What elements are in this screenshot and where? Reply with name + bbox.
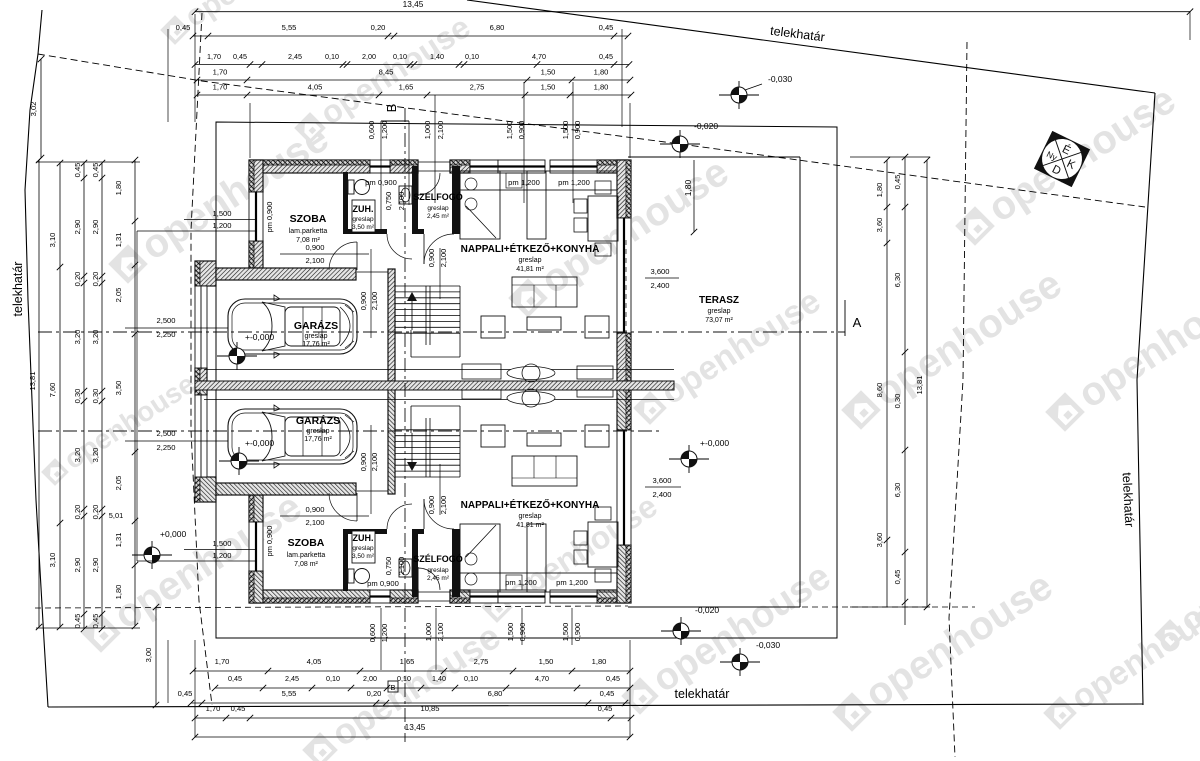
svg-text:+-0,000: +-0,000 (245, 438, 274, 448)
svg-text:2,500: 2,500 (156, 316, 175, 325)
svg-text:1,40: 1,40 (432, 674, 446, 683)
svg-text:1,80: 1,80 (594, 68, 609, 77)
svg-text:pm 0,900: pm 0,900 (265, 526, 274, 557)
svg-text:5,55: 5,55 (282, 689, 297, 698)
svg-text:+0,000: +0,000 (160, 529, 187, 539)
svg-text:0,45: 0,45 (606, 674, 620, 683)
svg-text:7,08 m²: 7,08 m² (294, 561, 318, 568)
svg-text:greslap: greslap (305, 333, 328, 340)
svg-text:13,45: 13,45 (403, 0, 424, 9)
svg-text:0,900: 0,900 (427, 249, 436, 268)
svg-text:17,76 m²: 17,76 m² (304, 436, 332, 443)
svg-text:2,100: 2,100 (305, 256, 324, 265)
svg-text:3,50: 3,50 (114, 381, 123, 396)
svg-text:0,45: 0,45 (893, 175, 902, 190)
svg-text:1,500: 1,500 (561, 623, 570, 642)
svg-text:1,50: 1,50 (541, 83, 556, 92)
svg-text:2,400: 2,400 (652, 490, 671, 499)
svg-text:0,20: 0,20 (91, 505, 100, 520)
svg-text:2,100: 2,100 (436, 623, 445, 642)
svg-text:greslap: greslap (427, 205, 449, 212)
svg-text:NAPPALI+ÉTKEZŐ+KONYHA: NAPPALI+ÉTKEZŐ+KONYHA (461, 498, 600, 511)
svg-text:17,76 m²: 17,76 m² (302, 341, 330, 348)
svg-text:2,00: 2,00 (363, 674, 377, 683)
svg-text:2,45 m²: 2,45 m² (427, 213, 450, 220)
svg-text:3,60: 3,60 (875, 218, 884, 233)
svg-text:0,30: 0,30 (73, 389, 82, 404)
svg-text:6,80: 6,80 (488, 689, 503, 698)
svg-text:10,85: 10,85 (420, 704, 439, 713)
svg-text:1,000: 1,000 (423, 121, 432, 140)
svg-text:2,45: 2,45 (288, 52, 302, 61)
svg-text:1,80: 1,80 (875, 183, 884, 198)
svg-text:41,81 m²: 41,81 m² (516, 522, 544, 529)
svg-text:5,01: 5,01 (109, 511, 123, 520)
svg-text:1,200: 1,200 (380, 121, 389, 140)
svg-text:1,000: 1,000 (424, 623, 433, 642)
svg-text:0,900: 0,900 (518, 623, 527, 642)
svg-text:greslap: greslap (307, 428, 330, 435)
svg-text:6,80: 6,80 (490, 23, 505, 32)
svg-text:0,20: 0,20 (367, 689, 382, 698)
svg-text:3,60: 3,60 (875, 533, 884, 548)
svg-text:0,45: 0,45 (233, 52, 247, 61)
svg-text:SZOBA: SZOBA (288, 537, 325, 549)
svg-text:3,20: 3,20 (91, 448, 100, 463)
svg-text:pm 1,200: pm 1,200 (508, 178, 540, 187)
svg-text:0,45: 0,45 (599, 52, 613, 61)
svg-text:telekhatár: telekhatár (675, 687, 730, 701)
svg-text:lam.parketta: lam.parketta (287, 552, 326, 559)
svg-text:2,90: 2,90 (73, 558, 82, 573)
svg-text:3,20: 3,20 (73, 330, 82, 345)
svg-text:0,900: 0,900 (359, 292, 368, 311)
svg-text:SZÉLFOGÓ: SZÉLFOGÓ (413, 553, 463, 564)
svg-text:1,50: 1,50 (539, 657, 554, 666)
svg-text:3,600: 3,600 (650, 267, 669, 276)
svg-text:2,75: 2,75 (474, 657, 489, 666)
svg-text:2,00: 2,00 (362, 52, 376, 61)
svg-text:greslap: greslap (519, 513, 542, 520)
svg-text:0,45: 0,45 (231, 704, 246, 713)
svg-text:pm 0,900: pm 0,900 (365, 178, 397, 187)
svg-text:2,100: 2,100 (305, 518, 324, 527)
svg-text:pm 1,200: pm 1,200 (556, 578, 588, 587)
svg-text:1,200: 1,200 (212, 551, 231, 560)
svg-text:GARÁZS: GARÁZS (294, 319, 338, 332)
svg-text:2,100: 2,100 (439, 496, 448, 515)
svg-text:0,45: 0,45 (228, 674, 242, 683)
svg-text:0,900: 0,900 (517, 121, 526, 140)
svg-text:1,500: 1,500 (561, 121, 570, 140)
svg-text:8,45: 8,45 (379, 68, 394, 77)
svg-text:-0,020: -0,020 (694, 121, 718, 131)
svg-text:0,45: 0,45 (73, 614, 82, 629)
svg-text:6,30: 6,30 (893, 273, 902, 288)
svg-text:0,10: 0,10 (397, 674, 411, 683)
svg-text:0,45: 0,45 (599, 23, 614, 32)
svg-text:2,75: 2,75 (470, 83, 485, 92)
svg-text:0,750: 0,750 (384, 557, 393, 576)
svg-text:0,10: 0,10 (465, 52, 479, 61)
svg-text:1,40: 1,40 (430, 52, 444, 61)
svg-text:greslap: greslap (427, 567, 449, 574)
svg-text:2,90: 2,90 (91, 220, 100, 235)
svg-text:1,70: 1,70 (206, 704, 221, 713)
svg-text:1,70: 1,70 (207, 52, 221, 61)
svg-text:2,45 m²: 2,45 m² (427, 575, 450, 582)
svg-text:0,750: 0,750 (384, 192, 393, 211)
svg-text:5,55: 5,55 (282, 23, 297, 32)
svg-text:2,100: 2,100 (397, 192, 406, 211)
svg-text:1,65: 1,65 (399, 83, 414, 92)
svg-text:1,80: 1,80 (114, 181, 123, 196)
svg-text:2,100: 2,100 (397, 557, 406, 576)
svg-text:2,05: 2,05 (114, 476, 123, 491)
svg-text:SZOBA: SZOBA (290, 213, 327, 225)
svg-text:0,45: 0,45 (600, 689, 615, 698)
svg-text:4,05: 4,05 (307, 657, 322, 666)
svg-text:GARÁZS: GARÁZS (296, 414, 340, 427)
svg-text:1,80: 1,80 (594, 83, 609, 92)
svg-text:ZUH.: ZUH. (353, 204, 374, 214)
svg-text:1,70: 1,70 (213, 83, 228, 92)
svg-text:0,900: 0,900 (427, 496, 436, 515)
svg-text:1,70: 1,70 (215, 657, 230, 666)
svg-text:telekhatár: telekhatár (1120, 472, 1137, 528)
svg-text:0,600: 0,600 (368, 624, 377, 643)
svg-text:1,50: 1,50 (541, 68, 556, 77)
svg-text:0,900: 0,900 (573, 623, 582, 642)
svg-text:7,60: 7,60 (48, 383, 57, 398)
svg-text:3,600: 3,600 (652, 476, 671, 485)
svg-text:1,80: 1,80 (114, 585, 123, 600)
svg-text:0,45: 0,45 (176, 23, 191, 32)
svg-text:2,05: 2,05 (114, 288, 123, 303)
svg-text:TERASZ: TERASZ (699, 295, 739, 306)
svg-text:2,250: 2,250 (156, 443, 175, 452)
svg-text:2,100: 2,100 (439, 249, 448, 268)
svg-text:1,500: 1,500 (212, 209, 231, 218)
svg-text:2,100: 2,100 (370, 292, 379, 311)
svg-text:2,400: 2,400 (650, 281, 669, 290)
svg-text:B: B (391, 683, 396, 692)
svg-text:1,31: 1,31 (114, 533, 123, 548)
svg-text:0,10: 0,10 (325, 52, 339, 61)
svg-text:2,250: 2,250 (156, 330, 175, 339)
svg-text:lam.parketta: lam.parketta (289, 228, 328, 235)
svg-text:4,05: 4,05 (308, 83, 323, 92)
svg-text:1,500: 1,500 (506, 623, 515, 642)
svg-text:73,07 m²: 73,07 m² (705, 317, 733, 324)
svg-text:0,45: 0,45 (73, 163, 82, 178)
svg-text:0,20: 0,20 (73, 505, 82, 520)
svg-text:3,50 m²: 3,50 m² (352, 224, 375, 231)
svg-text:pm 0,900: pm 0,900 (367, 579, 399, 588)
svg-text:13,45: 13,45 (405, 722, 426, 732)
svg-text:1,31: 1,31 (114, 233, 123, 248)
svg-text:telekhatár: telekhatár (11, 262, 25, 317)
svg-text:2,100: 2,100 (436, 121, 445, 140)
svg-text:1,500: 1,500 (505, 121, 514, 140)
svg-text:pm 1,200: pm 1,200 (558, 178, 590, 187)
svg-text:SZÉLFOGÓ: SZÉLFOGÓ (413, 191, 463, 202)
svg-text:2,500: 2,500 (156, 429, 175, 438)
svg-text:1,200: 1,200 (212, 221, 231, 230)
svg-text:0,10: 0,10 (393, 52, 407, 61)
svg-text:A: A (853, 315, 862, 330)
svg-text:0,45: 0,45 (598, 704, 613, 713)
svg-text:0,20: 0,20 (91, 272, 100, 287)
svg-text:greslap: greslap (352, 216, 374, 223)
svg-text:0,30: 0,30 (91, 389, 100, 404)
svg-text:1,80: 1,80 (683, 179, 693, 196)
svg-text:-0,030: -0,030 (756, 640, 780, 650)
svg-text:greslap: greslap (352, 545, 374, 552)
svg-text:2,45: 2,45 (285, 674, 299, 683)
svg-text:0,900: 0,900 (305, 243, 324, 252)
svg-text:ZUH.: ZUH. (353, 533, 374, 543)
svg-text:0,45: 0,45 (893, 570, 902, 585)
svg-text:pm 1,200: pm 1,200 (505, 578, 537, 587)
svg-text:0,900: 0,900 (573, 121, 582, 140)
svg-text:2,90: 2,90 (91, 558, 100, 573)
svg-text:4,70: 4,70 (532, 52, 546, 61)
svg-text:41,81 m²: 41,81 m² (516, 266, 544, 273)
svg-text:+-0,000: +-0,000 (700, 438, 729, 448)
svg-text:3,10: 3,10 (48, 233, 57, 248)
svg-text:13,81: 13,81 (28, 371, 37, 390)
svg-text:NAPPALI+ÉTKEZŐ+KONYHA: NAPPALI+ÉTKEZŐ+KONYHA (461, 242, 600, 255)
svg-text:pm 0,900: pm 0,900 (265, 202, 274, 233)
svg-text:2,100: 2,100 (370, 453, 379, 472)
svg-text:0,900: 0,900 (305, 505, 324, 514)
svg-text:3,20: 3,20 (91, 330, 100, 345)
svg-text:3,10: 3,10 (48, 553, 57, 568)
svg-text:greslap: greslap (708, 308, 731, 315)
svg-text:0,45: 0,45 (91, 614, 100, 629)
svg-text:0,900: 0,900 (359, 453, 368, 472)
svg-text:3,50 m²: 3,50 m² (352, 553, 375, 560)
svg-text:1,200: 1,200 (380, 624, 389, 643)
svg-text:0,10: 0,10 (326, 674, 340, 683)
svg-text:-0,020: -0,020 (695, 605, 719, 615)
svg-text:2,90: 2,90 (73, 220, 82, 235)
svg-text:greslap: greslap (519, 257, 542, 264)
svg-text:8,60: 8,60 (875, 383, 884, 398)
svg-text:0,20: 0,20 (371, 23, 386, 32)
svg-text:0,20: 0,20 (73, 272, 82, 287)
svg-text:1,80: 1,80 (592, 657, 607, 666)
svg-text:0,45: 0,45 (178, 689, 193, 698)
svg-text:3,20: 3,20 (73, 448, 82, 463)
svg-text:0,30: 0,30 (893, 394, 902, 409)
svg-text:-0,030: -0,030 (768, 74, 792, 84)
svg-text:1,500: 1,500 (212, 539, 231, 548)
svg-text:0,45: 0,45 (91, 163, 100, 178)
svg-text:B: B (384, 104, 399, 113)
svg-text:3,02: 3,02 (29, 102, 38, 117)
svg-text:0,10: 0,10 (464, 674, 478, 683)
svg-text:+-0,000: +-0,000 (245, 332, 274, 342)
svg-text:6,30: 6,30 (893, 483, 902, 498)
svg-text:1,70: 1,70 (213, 68, 228, 77)
svg-text:3,00: 3,00 (144, 648, 153, 663)
svg-text:1,65: 1,65 (400, 657, 415, 666)
svg-text:0,600: 0,600 (367, 121, 376, 140)
svg-text:4,70: 4,70 (535, 674, 549, 683)
svg-text:13,81: 13,81 (915, 375, 924, 394)
